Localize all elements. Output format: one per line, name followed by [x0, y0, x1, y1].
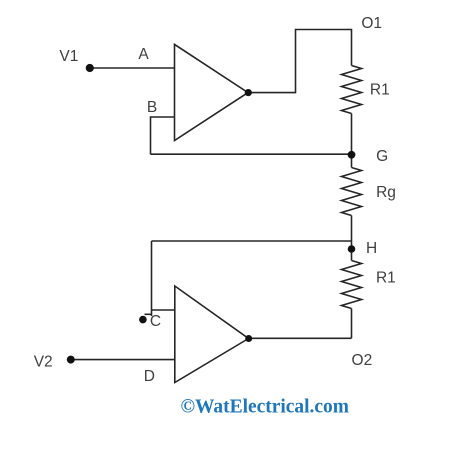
svg-text:C: C [150, 313, 161, 330]
svg-text:H: H [366, 240, 377, 257]
wire V2 to op-amp U2 input D [71, 359, 175, 361]
resistor R1 (bottom) [342, 261, 362, 309]
wire node H feedback to left [152, 240, 352, 242]
node dot U1 output [245, 89, 252, 96]
wire H dot to resistor R1 (bottom) [351, 249, 353, 261]
wire R1 bottom lead to O2 corner [351, 309, 353, 339]
node G junction dot [348, 151, 356, 159]
svg-text:O2: O2 [352, 352, 373, 369]
svg-text:Rg: Rg [376, 184, 396, 201]
svg-text:V2: V2 [34, 353, 53, 370]
op-amp U2 [175, 286, 249, 383]
svg-text:O1: O1 [361, 15, 382, 32]
wire R1 bottom to node G to Rg top [351, 114, 353, 168]
terminal dot V2 [67, 356, 75, 364]
wire Rg bottom to node H [351, 216, 353, 250]
node H junction dot [348, 245, 356, 253]
resistor R1 (top) [342, 66, 362, 114]
op-amp U1 [175, 44, 249, 140]
svg-text:A: A [138, 46, 149, 63]
svg-text:©WatElectrical.com: ©WatElectrical.com [181, 396, 350, 417]
resistor Rg [342, 168, 362, 216]
wire feedback vertical down to node C [151, 241, 153, 316]
wire V1 to op-amp U1 input A [90, 67, 175, 69]
svg-text:R1: R1 [376, 269, 396, 286]
wire op-amp U1 input B stub [151, 117, 175, 154]
svg-text:D: D [144, 368, 155, 385]
wire node C terminal stub [145, 313, 152, 315]
svg-text:G: G [376, 148, 388, 165]
svg-text:B: B [147, 99, 157, 116]
wire node C branch to U2 inverting input [152, 309, 175, 311]
wire U1 output to O1 [248, 30, 352, 93]
node C terminal dot [139, 316, 147, 324]
wire node B to node G (long horizontal) [151, 153, 352, 155]
node dot U2 output [245, 335, 252, 342]
svg-text:V1: V1 [59, 48, 78, 65]
svg-text:R1: R1 [370, 81, 390, 98]
wire U2 output to O2 [249, 337, 352, 339]
terminal dot V1 [86, 64, 94, 72]
